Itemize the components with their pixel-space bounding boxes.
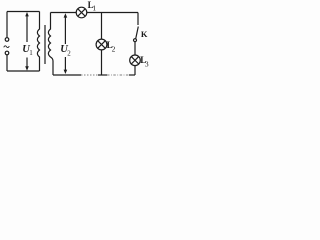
svg-text:3: 3 [145, 59, 149, 68]
svg-text:2: 2 [112, 44, 116, 53]
svg-text:K: K [141, 29, 148, 39]
svg-text:1: 1 [92, 3, 96, 12]
svg-text:2: 2 [67, 50, 71, 58]
svg-text:1: 1 [29, 49, 33, 57]
